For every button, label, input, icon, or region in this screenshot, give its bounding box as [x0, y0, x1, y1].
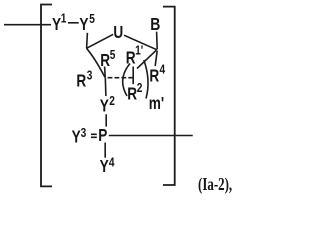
svg-text:3: 3: [87, 68, 93, 82]
dashed bond C3'-C2': [108, 77, 134, 79]
wire left attachment bond: [4, 24, 51, 26]
svg-text:5: 5: [110, 48, 116, 62]
svg-text:R: R: [149, 67, 159, 86]
svg-text:Y: Y: [100, 97, 110, 116]
bond Y5-C4': [86, 33, 89, 49]
svg-text:1: 1: [61, 11, 67, 25]
svg-text:P: P: [98, 127, 107, 146]
bond R5-C3': [104, 67, 107, 78]
bond U-C1': [124, 35, 157, 50]
bond Y1-Y5: [68, 22, 79, 24]
bond P-right attachment: [109, 135, 193, 137]
right bracket: [163, 7, 175, 185]
svg-text:5: 5: [89, 12, 95, 26]
svg-text:Y: Y: [72, 128, 82, 147]
svg-text:2: 2: [137, 81, 143, 95]
bond C4'-C3': [87, 48, 106, 77]
bond B-C1': [156, 32, 159, 50]
bond C4'-U: [87, 34, 114, 48]
svg-text:4: 4: [160, 62, 166, 76]
svg-text:(Ia-2),: (Ia-2),: [198, 175, 232, 195]
bond C1'-C2': [137, 50, 156, 68]
bond C3'-Y2: [104, 78, 107, 97]
svg-text:R: R: [127, 85, 137, 104]
repeat parenthesis left: [123, 64, 130, 97]
bond Y2-P: [105, 114, 107, 126]
svg-text:m': m': [149, 94, 164, 113]
bond C1'-R4: [155, 51, 157, 67]
svg-text:U: U: [113, 23, 123, 42]
svg-text:R: R: [76, 72, 86, 91]
svg-text:R: R: [126, 49, 136, 68]
left bracket: [41, 5, 52, 187]
svg-text:4: 4: [109, 155, 115, 169]
svg-text:B: B: [150, 16, 160, 35]
svg-text:R: R: [100, 51, 110, 70]
svg-text:Y: Y: [79, 16, 89, 35]
svg-text:2: 2: [109, 94, 115, 108]
svg-text:Y: Y: [100, 158, 110, 177]
repeat parenthesis right: [144, 60, 148, 99]
bond R1'-R2: [132, 67, 134, 85]
bond P-Y4: [104, 143, 106, 158]
svg-text:3: 3: [81, 126, 87, 140]
svg-text:1': 1': [135, 44, 143, 58]
double bond Y3=P: [91, 133, 97, 135]
